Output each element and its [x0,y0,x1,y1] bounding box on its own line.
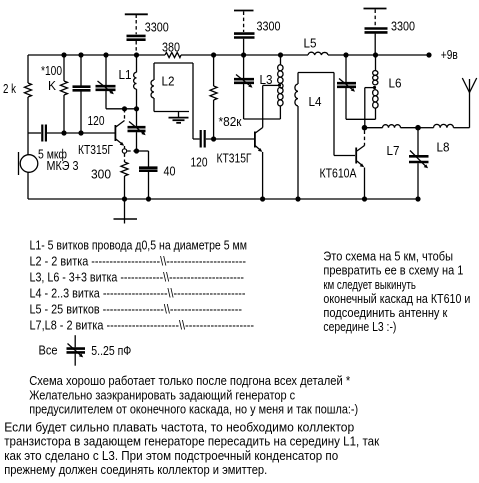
svg-text:середине L3 :-): середине L3 :-) [323,319,396,334]
svg-text:K: K [48,78,56,93]
trimmer capacitor C2 (tank 2) [234,55,254,119]
svg-text:*82к: *82к [219,114,242,129]
capacitor 5 mkf (electret mic coupling) [28,125,46,142]
node trimmer C3 bottom junction [134,148,139,153]
svg-text:превратить ее в схему на 1: превратить ее в схему на 1 [323,263,463,278]
svg-text:прежнему должен соединять колл: прежнему должен соединять коллектор и эм… [4,462,267,477]
svg-text:км следует выкинуть: км следует выкинуть [323,277,416,292]
resistor 2k [25,55,32,133]
trimmer capacitor C4 (tank 3) [337,55,356,119]
svg-text:+9в: +9в [441,47,458,62]
svg-text:40: 40 [164,164,176,179]
svg-text:оконечный каскад на КТ610 и: оконечный каскад на КТ610 и [323,291,470,306]
tuning note text block [29,373,358,416]
svg-text:L1- 5 витков провода д0,5 на д: L1- 5 витков провода д0,5 на диаметре 5 … [30,238,248,253]
node rail junction at trimmer C1 [103,52,108,57]
inductor L4 (coupling loop) [295,73,355,200]
svg-text:380: 380 [162,39,180,54]
wire L8 to antenna [454,127,470,129]
node +9v terminal dot [426,52,431,57]
node rail junction at L3 [278,52,283,57]
node rail junction at C120 #1 [78,52,83,57]
node bottom junction C40 [146,196,151,201]
inductor L5 (series in rail) [308,52,328,55]
svg-text:3300: 3300 [257,19,281,34]
svg-text:Желательно заэкранировать зад: Желательно заэкранировать задающий генер… [29,387,295,402]
trimmer capacitor C6 (antenna) [409,128,429,199]
svg-text:транзистора в задающем генерат: транзистора в задающем генераторе переса… [4,434,379,449]
svg-text:L4 - 2..3 витка --------------: L4 - 2..3 витка ------------------\\----… [30,286,246,301]
svg-text:L5 - 25 витков ---------------: L5 - 25 витков -----------------\\------… [30,302,243,317]
wire bottom ground rail [28,198,418,200]
svg-text:120: 120 [191,155,208,170]
node rail junction at L1 top [134,52,139,57]
inductor L7 [383,125,401,128]
wire base Q2 [206,138,254,140]
ground (top, for C 3300 #3) [364,9,387,28]
svg-text:Схема хорошо работает только п: Схема хорошо работает только после подго… [29,373,350,388]
node L1 bottom junction [134,106,139,111]
node collector junction Q1 [122,106,127,111]
resistor *82k [210,55,217,139]
trimmer capacitor C3 (collector-emitter) [128,109,146,151]
antenna [462,78,476,128]
inductor L6 (tapped) [373,55,378,119]
svg-text:3300: 3300 [391,19,415,34]
capacitor 120 #2 (coupling) [201,130,205,148]
wire tank3 bottom [346,118,376,120]
node output junction (collector Q3 / L7) [362,125,368,131]
svg-text:Если будет сильно плавать част: Если будет сильно плавать частота, то не… [4,420,354,435]
wire tank1 bottom to collector node [106,108,137,110]
capacitor 40 [137,151,158,199]
node bottom junction trimmer C6 [415,196,420,201]
inductor L8 [433,124,453,127]
transistor Q2 KT315G [254,85,263,199]
right note text block [323,249,470,335]
svg-text:300: 300 [91,167,111,182]
svg-text:КТ315Г: КТ315Г [217,151,252,166]
svg-text:L7: L7 [387,143,400,158]
svg-text:L3, L6 - 3+3 витка -----------: L3, L6 - 3+3 витка ------------\\-------… [30,270,245,285]
svg-text:3300: 3300 [145,19,169,34]
svg-text:КТ610А: КТ610А [320,166,357,181]
node bottom junction R300 [122,196,127,201]
ground (top, for C 3300 #1) [125,14,148,34]
svg-text:2 k: 2 k [3,81,16,96]
transistor Q1 KT315G [115,109,125,149]
wire top supply rail segment middle [181,54,308,56]
node rail junction at *82k [211,52,216,57]
wire top supply rail segment right [328,54,429,56]
capacitor 3300 #2 [234,34,255,55]
svg-text:как это сделано с L3. При этом: как это сделано с L3. При этом подстроеч… [4,448,338,463]
node bottom junction Q3 emitter [362,196,367,201]
capacitor 120 #1 [73,55,91,133]
node rail junction at trimmer C4 [343,52,348,57]
svg-text:МКЭ 3: МКЭ 3 [47,158,79,173]
ground (bottom rail) [114,199,138,224]
wire L2 top to coupling cap [193,63,200,139]
inductor L1 [134,55,137,109]
resistor 380 (series in rail) [165,52,181,57]
svg-text:подсоединить антенну к: подсоединить антенну к [323,305,447,320]
ground (L2) [169,112,189,123]
wire output node to L7 [365,127,383,129]
svg-text:КТ315Г: КТ315Г [78,142,113,157]
node bottom junction Q2 emitter [260,196,265,201]
resistor *100K [61,55,68,133]
trimmer capacitor (legend symbol) [67,335,86,366]
inductor L2 (coupling loop) [151,63,193,112]
capacitor 3300 #3 [365,29,388,56]
svg-text:*100: *100 [41,63,62,78]
svg-text:5..25 пФ: 5..25 пФ [91,343,131,358]
wire top supply rail segment left [28,54,165,56]
svg-text:L2 - 2 витка -----------------: L2 - 2 витка -------------------\\------… [30,254,247,269]
svg-text:L6: L6 [389,76,402,91]
node bottom junction L4 [295,196,300,201]
microphone MKE-3 [19,133,38,199]
ground (top, for C 3300 #2) [234,11,254,33]
svg-text:L8: L8 [437,140,450,155]
wire base Q1 [47,132,115,134]
wire emitter node dashes [127,150,134,152]
wire L3 tap [263,84,279,86]
svg-text:L2: L2 [162,74,175,89]
inductor L3 (tapped) [278,55,283,119]
svg-text:Это схема на 5 км, чтобы: Это схема на 5 км, чтобы [323,249,453,264]
frequency drift note text block [4,420,379,478]
node junction L7/L8/trimmer [415,125,421,131]
svg-text:L4: L4 [309,94,322,109]
capacitor 3300 #1 [127,36,146,54]
svg-text:предусилителем от оконечного к: предусилителем от оконечного каскада, но… [29,402,358,417]
node rail junction at *100K [61,52,66,57]
node rail junction at L6 top [373,52,378,57]
wire L7 to antenna node [401,127,419,129]
trimmer capacitor C1 (tank 1) [96,55,116,109]
node emitter open circle Q1 [122,149,126,153]
node junction *82k bottom [211,136,216,141]
resistor 300 [121,153,128,199]
svg-text:120: 120 [88,113,105,128]
svg-text:L5: L5 [304,36,317,51]
wire tank2 bottom [244,118,281,120]
node rail junction at trimmer C2 top [241,52,246,57]
svg-text:L7,L8 - 2 витка --------------: L7,L8 - 2 витка --------------------\\--… [30,318,255,333]
node junction *100K bottom [61,130,66,135]
node junction C120 bottom [78,130,83,135]
svg-text:L1: L1 [119,67,132,82]
wire L6 tap [365,88,374,126]
svg-text:Все: Все [39,342,58,357]
winding list text block [30,238,255,333]
wire node to L8 [418,127,434,129]
transistor Q3 KT610A [355,131,364,200]
